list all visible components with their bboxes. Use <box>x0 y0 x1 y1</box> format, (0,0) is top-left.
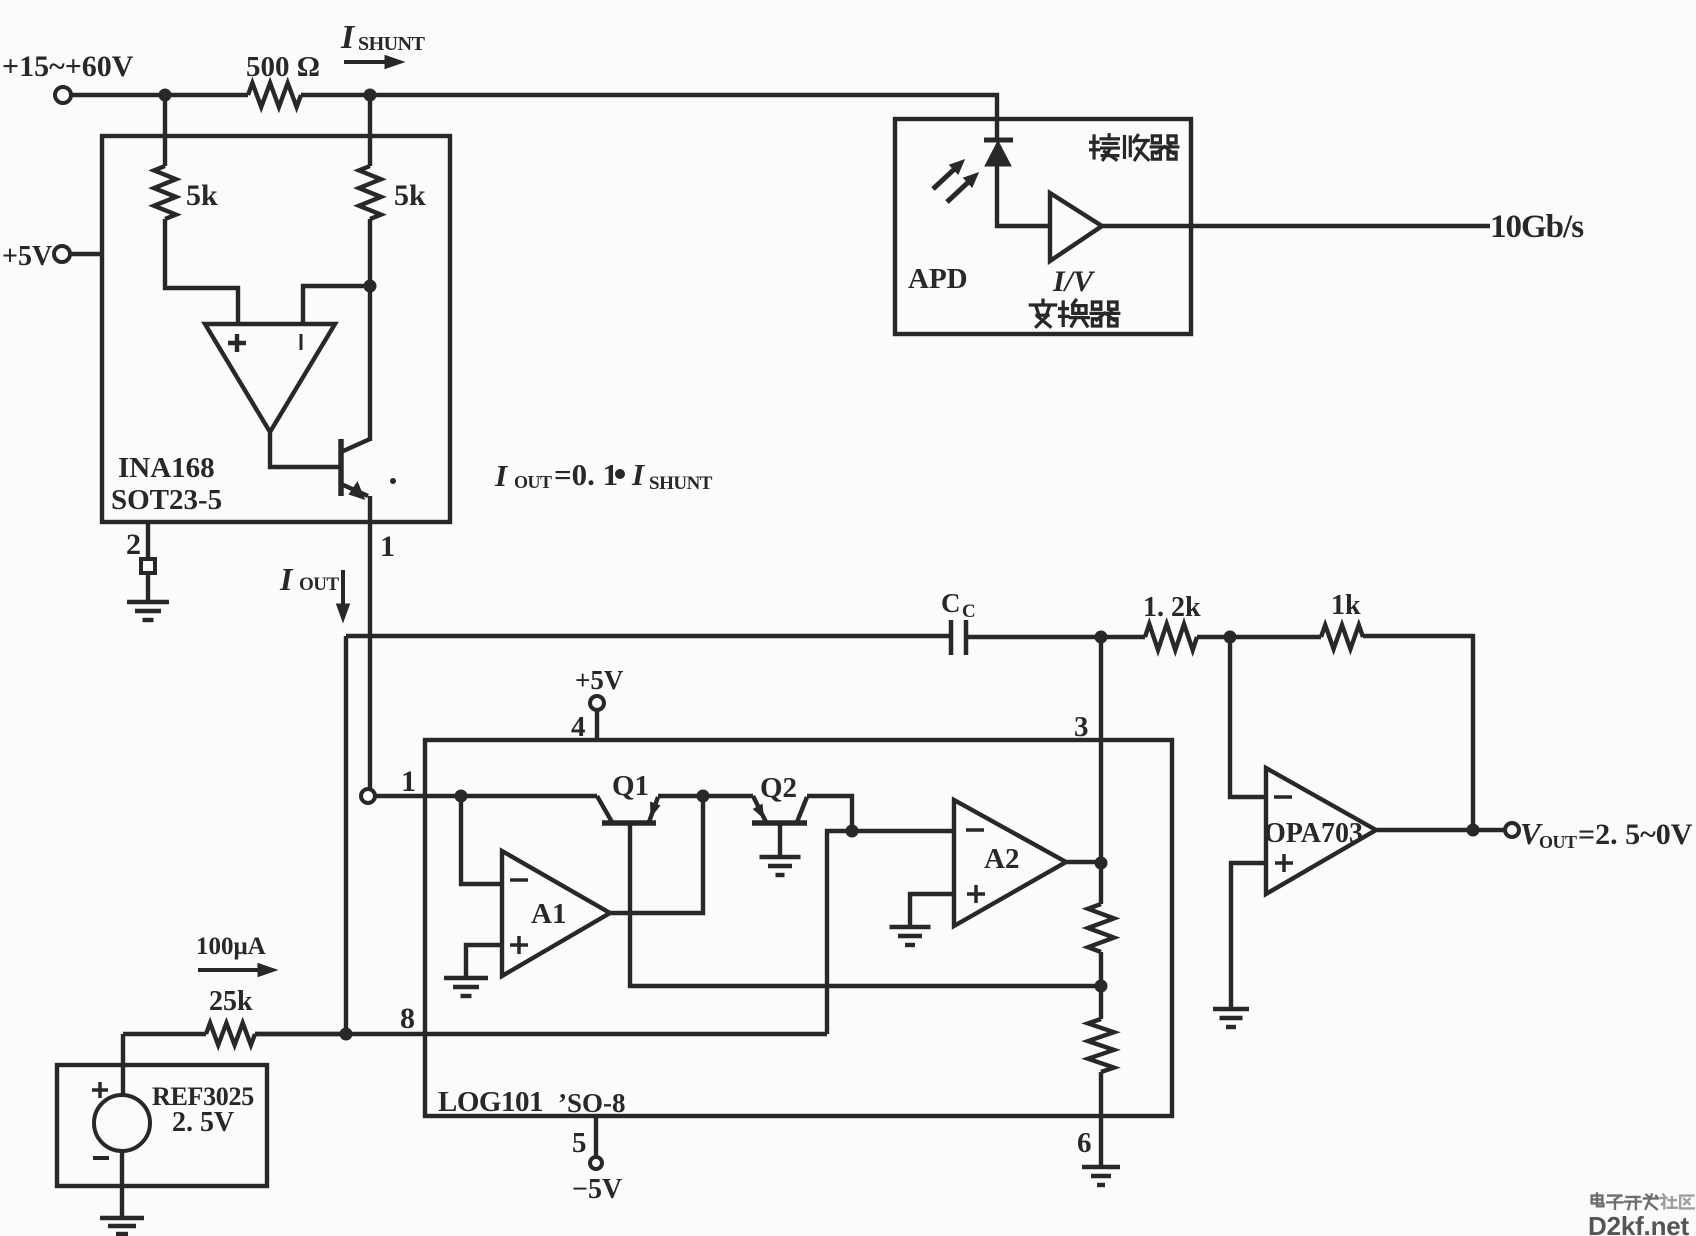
svg-text:=2. 5~0V: =2. 5~0V <box>1578 818 1693 851</box>
svg-text:INA168: INA168 <box>118 452 215 484</box>
svg-text:−5V: −5V <box>572 1174 622 1205</box>
svg-text:I: I <box>279 561 294 597</box>
svg-text:A1: A1 <box>531 898 566 930</box>
svg-text:I: I <box>631 457 645 492</box>
svg-text:SOT23-5: SOT23-5 <box>111 484 222 516</box>
svg-text:APD: APD <box>908 263 968 295</box>
svg-text:SHUNT: SHUNT <box>649 473 713 494</box>
svg-text:2. 5V: 2. 5V <box>172 1107 234 1138</box>
svg-text:+15~+60V: +15~+60V <box>2 50 134 83</box>
svg-text:10Gb/s: 10Gb/s <box>1490 209 1584 245</box>
svg-text:3: 3 <box>1074 711 1089 743</box>
svg-text:Q2: Q2 <box>760 772 797 804</box>
svg-text:D2kf.net: D2kf.net <box>1588 1211 1690 1236</box>
svg-text:SHUNT: SHUNT <box>358 33 426 55</box>
svg-text:5k: 5k <box>394 179 426 212</box>
svg-text:25k: 25k <box>209 986 253 1017</box>
svg-text:OUT: OUT <box>1539 832 1577 852</box>
svg-text:’SO-8: ’SO-8 <box>558 1088 626 1118</box>
svg-text:5k: 5k <box>186 179 218 212</box>
svg-text:+5V: +5V <box>575 665 624 695</box>
svg-text:100μA: 100μA <box>196 933 266 960</box>
svg-text:1: 1 <box>401 765 416 798</box>
svg-text:1k: 1k <box>1331 590 1361 621</box>
svg-text:OUT: OUT <box>514 472 552 492</box>
svg-text:OPA703: OPA703 <box>1264 818 1363 849</box>
svg-text:C: C <box>962 601 976 622</box>
svg-text:4: 4 <box>571 711 586 743</box>
svg-text:2: 2 <box>126 528 141 561</box>
svg-text:+5V: +5V <box>2 241 52 272</box>
svg-text:A2: A2 <box>984 843 1019 875</box>
svg-text:1. 2k: 1. 2k <box>1143 592 1201 623</box>
svg-text:I: I <box>340 19 356 56</box>
svg-text:8: 8 <box>400 1002 415 1035</box>
svg-text:=0. 1: =0. 1 <box>554 457 618 492</box>
svg-text:C: C <box>941 588 961 618</box>
svg-text:Q1: Q1 <box>612 770 649 802</box>
svg-text:LOG101: LOG101 <box>438 1086 543 1118</box>
svg-text:1: 1 <box>380 530 395 563</box>
svg-text:6: 6 <box>1077 1127 1092 1159</box>
svg-text:OUT: OUT <box>299 574 340 595</box>
svg-text:I: I <box>494 458 508 493</box>
svg-text:I/V: I/V <box>1052 265 1096 298</box>
svg-text:500 Ω: 500 Ω <box>246 51 320 83</box>
svg-text:5: 5 <box>572 1127 587 1159</box>
